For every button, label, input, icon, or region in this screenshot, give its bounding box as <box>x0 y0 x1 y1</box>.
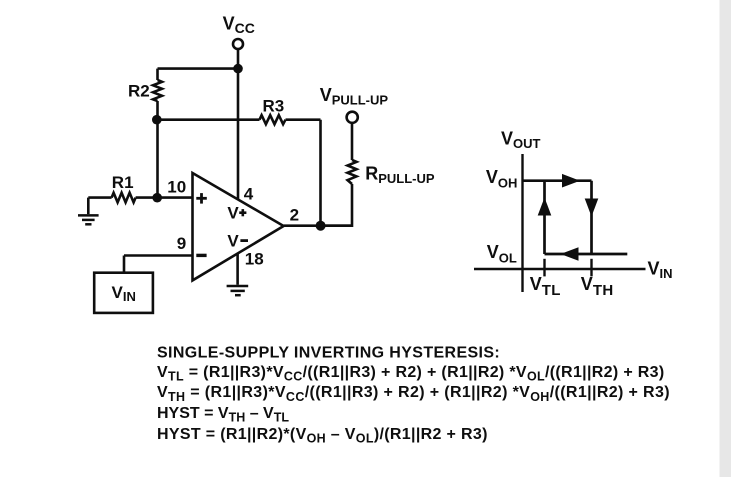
wire node B horizontal to R3 <box>157 118 260 121</box>
wire VCC node to R2 top <box>158 67 239 70</box>
curve VOL segment <box>545 253 628 256</box>
svg-text:VTL = (R1||R3)*VCC/((R1||R3) +: VTL = (R1||R3)*VCC/((R1||R3) + R2) + (R1… <box>157 364 665 384</box>
wire corner down to output node <box>319 120 322 226</box>
svg-text:HYST = VTH – VTL: HYST = VTH – VTL <box>157 405 289 425</box>
arrow up on left segment <box>538 198 552 216</box>
wire input node to op-amp pin 10 <box>158 196 193 199</box>
wire VIN vertical stub <box>123 256 126 273</box>
wire VPULL-UP stub <box>351 123 354 160</box>
svg-text:SINGLE-SUPPLY INVERTING HYSTER: SINGLE-SUPPLY INVERTING HYSTERESIS: <box>157 344 500 361</box>
junction VCC node <box>233 64 243 74</box>
op-amp minus input sign <box>196 254 206 257</box>
tick VTL <box>543 259 545 277</box>
wire ground to R1 <box>88 196 111 199</box>
wire R1 to input node <box>136 196 158 199</box>
graph y axis <box>521 154 523 292</box>
VCC terminal <box>233 39 243 49</box>
resistor R2 <box>153 80 162 101</box>
wire VIN to op-amp pin 9 <box>124 254 193 257</box>
ground under op-amp <box>227 286 249 295</box>
resistor R1 <box>112 193 136 203</box>
wire left ground stub <box>87 198 90 215</box>
svg-text:VTH = (R1||R3)*VCC/((R1||R3) +: VTH = (R1||R3)*VCC/((R1||R3) + R2) + (R1… <box>157 384 670 404</box>
tick VTH <box>590 259 592 277</box>
resistor R3 <box>260 115 286 124</box>
junction input node <box>152 193 162 203</box>
svg-text:18: 18 <box>245 250 264 269</box>
svg-text:R3: R3 <box>263 97 285 116</box>
wire VCC vertical to op-amp pin 4 <box>237 69 240 200</box>
svg-text:10: 10 <box>167 178 186 197</box>
svg-text:R2: R2 <box>128 82 150 101</box>
wire RPULL-UP bottom to output node <box>321 184 353 226</box>
graph x axis <box>474 268 646 270</box>
svg-text:2: 2 <box>290 205 299 224</box>
arrow right on VOH line <box>562 174 580 188</box>
svg-text:V: V <box>227 204 239 223</box>
curve VOH segment <box>523 179 592 182</box>
wire R2 bottom stub <box>156 101 159 120</box>
svg-text:4: 4 <box>244 184 254 203</box>
svg-text:V: V <box>227 231 239 250</box>
arrow left on VOL line <box>561 247 579 261</box>
grey page edge strip <box>720 0 731 477</box>
resistor RPULL-UP <box>348 160 357 184</box>
arrow down on right segment <box>585 199 599 217</box>
ground left <box>78 215 99 224</box>
wire R3 to corner <box>286 118 321 121</box>
curve right vertical segment <box>590 181 593 254</box>
wire op-amp pin 18 to ground <box>236 253 239 285</box>
VPULL-UP terminal <box>347 112 358 123</box>
op-amp plus input sign <box>196 193 207 204</box>
junction output node 2 <box>316 221 326 231</box>
svg-text:R1: R1 <box>112 173 134 192</box>
VIN source box <box>94 273 153 313</box>
curve left vertical segment <box>543 181 546 254</box>
junction R2 bottom node <box>152 115 162 125</box>
wire op-amp output <box>284 224 352 227</box>
wire R2 top stub <box>156 69 159 80</box>
svg-text:9: 9 <box>177 234 186 253</box>
wire VCC stub <box>237 49 240 65</box>
wire R2 node down to input node <box>156 120 159 198</box>
op-amp U1 <box>193 173 284 280</box>
